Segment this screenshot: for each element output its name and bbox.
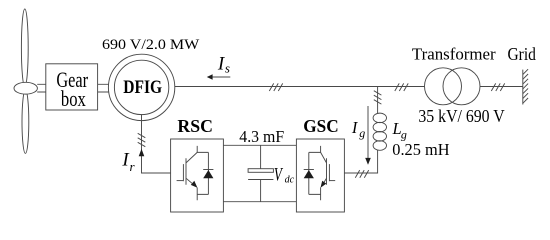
svg-text:35 kV/ 690 V: 35 kV/ 690 V	[418, 106, 504, 126]
svg-text:4.3 mF: 4.3 mF	[239, 127, 284, 146]
RSC IGBT emitter diagonal	[186, 178, 192, 183]
svg-text:g: g	[401, 127, 407, 141]
GSC diode branch vertical	[308, 152, 310, 194]
GSC diode cathode bar	[304, 169, 314, 171]
grid wall	[522, 70, 524, 105]
RSC box	[171, 139, 224, 212]
svg-text:s: s	[225, 61, 230, 76]
dc bus bottom	[223, 201, 296, 203]
capacitor bottom lead	[260, 180, 262, 202]
wind turbine top blade	[21, 9, 28, 86]
DFIG outer circle	[108, 54, 174, 120]
GSC IGBT bar	[326, 158, 328, 185]
hash on junction wire	[374, 91, 382, 104]
shaft gearbox to DFIG	[98, 84, 109, 92]
capacitor bottom plate	[248, 179, 273, 181]
hash on stator wire left	[269, 83, 282, 91]
hash on stator wire right	[395, 83, 408, 91]
capacitor top lead	[260, 145, 262, 168]
capacitor top plate	[248, 169, 273, 173]
svg-text:GSC: GSC	[303, 116, 338, 136]
grid wall hatches	[523, 69, 528, 103]
RSC diode triangle	[203, 170, 213, 178]
hash on rotor wire	[138, 133, 146, 146]
svg-text:DFIG: DFIG	[123, 77, 162, 98]
svg-text:690 V/2.0 MW: 690 V/2.0 MW	[102, 36, 200, 53]
svg-text:r: r	[130, 159, 136, 174]
svg-text:Grid: Grid	[508, 44, 536, 64]
RSC IGBT collector diagonal	[186, 152, 197, 163]
svg-text:I: I	[351, 118, 359, 137]
gear box	[46, 64, 98, 110]
svg-text:g: g	[359, 126, 365, 140]
RSC diode branch vertical	[207, 152, 209, 194]
svg-text:box: box	[61, 86, 86, 111]
RSC IGBT gate lead	[177, 180, 184, 182]
GSC collector stub and top horizontal	[309, 146, 321, 153]
RSC emitter vertical and bottom horizontal	[197, 188, 208, 201]
svg-text:V: V	[274, 163, 284, 185]
Ig arrow line	[367, 106, 369, 158]
wire transformer to grid	[480, 86, 523, 88]
dc bus top	[223, 144, 296, 146]
GSC box	[296, 139, 344, 212]
wire inductor to stator junction	[377, 87, 379, 114]
GSC diode triangle	[304, 170, 314, 178]
Is arrow line	[212, 76, 231, 78]
Is arrow head	[207, 74, 213, 80]
svg-text:0.25 mH: 0.25 mH	[392, 140, 449, 159]
inductor Lg coil	[373, 113, 386, 123]
RSC IGBT bar	[185, 158, 187, 185]
wire GSC to inductor	[344, 150, 377, 173]
GSC emitter arrow head	[321, 181, 327, 188]
svg-text:RSC: RSC	[177, 116, 213, 136]
GSC IGBT gate bar	[328, 164, 330, 181]
RSC emitter arrow head	[191, 181, 198, 188]
GSC IGBT gate lead	[329, 180, 335, 182]
svg-text:Transformer: Transformer	[412, 45, 496, 64]
transformer right circle	[443, 68, 480, 105]
stator wire	[175, 86, 425, 88]
rotor wire	[142, 114, 171, 173]
shaft hub to gearbox	[37, 84, 46, 92]
svg-text:dc: dc	[285, 175, 295, 186]
GSC IGBT emitter diagonal	[323, 178, 326, 183]
wind turbine bottom blade	[22, 90, 29, 153]
GSC emitter vertical and bottom horizontal	[309, 188, 321, 201]
DFIG inner circle	[114, 60, 168, 114]
hash on grid wire	[491, 83, 504, 91]
Ir arrow head	[139, 149, 145, 156]
hash on GSC wire	[355, 170, 368, 178]
transformer left circle	[425, 68, 462, 105]
RSC diode cathode bar	[203, 169, 213, 171]
RSC collector stub and top horizontal	[197, 146, 208, 153]
RSC IGBT gate bar	[182, 164, 184, 181]
GSC IGBT collector diagonal	[321, 152, 327, 163]
wind turbine hub	[14, 82, 37, 94]
Ig arrow head	[365, 158, 371, 165]
